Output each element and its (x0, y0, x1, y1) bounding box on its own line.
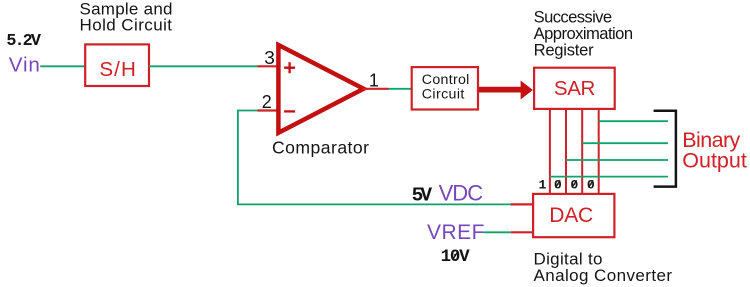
bit line b1 (SAR to DAC) (581, 110, 583, 193)
pin stub: comparator output pin 1 (362, 88, 389, 90)
pin stub: comparator pin 2 (258, 109, 280, 111)
output wire bit b1 (582, 142, 668, 144)
output bracket (654, 111, 676, 187)
pin stub: comparator pin 3 (258, 65, 280, 67)
svg-text:VREF: VREF (427, 221, 485, 244)
wire: S/H output to comparator non-inverting input (149, 65, 258, 67)
comparator U1 (triangle) (278, 45, 363, 133)
svg-text:1: 1 (539, 177, 547, 192)
wire: Vin to S/H input (40, 65, 85, 67)
svg-text:Analog Converter: Analog Converter (534, 266, 673, 285)
wire: VREF source to DAC (483, 231, 510, 233)
svg-text:DAC: DAC (549, 204, 593, 227)
output wire bit b0 (599, 120, 668, 122)
wire: comparator output to control circuit (389, 88, 413, 90)
svg-text:Comparator: Comparator (272, 137, 369, 157)
svg-text:10V: 10V (441, 247, 470, 267)
svg-text:S/H: S/H (99, 58, 136, 81)
svg-text:1: 1 (369, 70, 379, 90)
svg-text:Circuit: Circuit (422, 86, 465, 102)
signal arrow: control circuit to SAR (479, 81, 533, 100)
comparator + input symbol (284, 62, 295, 73)
svg-text:SAR: SAR (554, 77, 596, 100)
svg-text:Hold Circuit: Hold Circuit (80, 16, 173, 35)
pin stub: DAC VDC input (511, 203, 534, 205)
comparator - input symbol (284, 110, 295, 112)
output wire bit b2 (566, 159, 668, 161)
svg-text:VDC: VDC (439, 180, 484, 205)
pin stub: DAC VREF input (511, 231, 534, 233)
bit line b3 (SAR to DAC) (549, 110, 551, 193)
svg-text:Register: Register (534, 40, 594, 59)
DAC box (533, 194, 614, 237)
output wire bit b3 (550, 176, 668, 178)
SAR box (534, 68, 615, 109)
S/H box (sample and hold) (85, 44, 149, 86)
bit line b2 (SAR to DAC) (565, 110, 567, 193)
svg-text:Output: Output (682, 149, 747, 173)
svg-text:5V: 5V (412, 184, 433, 206)
wire: DAC output feedback to comparator inverting input (238, 111, 511, 205)
svg-text:5.2V: 5.2V (6, 32, 41, 51)
svg-text:2: 2 (262, 92, 272, 112)
control circuit box (412, 67, 478, 109)
bit line b0 (SAR to DAC) (598, 110, 600, 193)
svg-text:3: 3 (264, 48, 275, 68)
svg-text:Vin: Vin (9, 53, 40, 76)
